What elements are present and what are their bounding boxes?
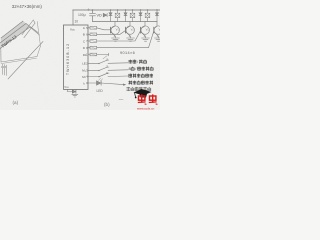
node dot bbox=[140, 9, 141, 10]
IC U1 body bbox=[64, 25, 89, 89]
svg-text:D: D bbox=[83, 46, 85, 50]
wire pin B bbox=[88, 33, 90, 35]
ground below IC bbox=[72, 94, 78, 97]
svg-text:100μ: 100μ bbox=[78, 13, 86, 17]
wire pin DL bbox=[88, 54, 90, 56]
LED D1 bbox=[97, 78, 103, 85]
module top depth edge bbox=[26, 24, 38, 33]
wire pin C bbox=[88, 40, 90, 42]
svg-text:10: 10 bbox=[75, 20, 79, 24]
transistor V3 bbox=[141, 22, 150, 39]
diode VD2 bbox=[124, 10, 127, 22]
transistor V2 bbox=[126, 22, 135, 39]
svg-text:8: 8 bbox=[129, 67, 131, 71]
wire DL right bbox=[97, 54, 109, 56]
ground V1 bbox=[112, 38, 120, 41]
wire pin A bbox=[88, 27, 90, 29]
ground V3 bbox=[142, 38, 150, 41]
node dot bbox=[147, 9, 148, 10]
svg-text:32×47×36(mm): 32×47×36(mm) bbox=[12, 4, 43, 9]
wire rail to IC pin 10 bbox=[72, 10, 74, 25]
svg-text:TWH630B-12: TWH630B-12 bbox=[66, 43, 70, 75]
svg-text:C: C bbox=[83, 39, 85, 43]
svg-text:LED: LED bbox=[97, 89, 104, 93]
svg-text:B: B bbox=[83, 33, 85, 37]
relay coil K2 bbox=[130, 10, 135, 22]
module right end edge bbox=[37, 22, 40, 47]
antenna rod right edge bbox=[24, 23, 35, 38]
wire to V3 base bbox=[97, 31, 141, 41]
annotation text line 4 LED indicator bbox=[129, 81, 153, 85]
annotation text line 1 memory/delete bbox=[129, 60, 147, 64]
power rail bbox=[73, 9, 160, 11]
svg-text:A: A bbox=[83, 26, 85, 30]
module bottom edge bbox=[1, 57, 37, 63]
module box label band bottom edge bbox=[0, 27, 30, 49]
ground V2 bbox=[127, 38, 135, 41]
pin 3 bbox=[6, 65, 8, 76]
watermark char chong 2 bbox=[149, 94, 158, 104]
svg-text:V4: V4 bbox=[159, 27, 160, 31]
node dot bbox=[132, 9, 133, 10]
node dot bbox=[125, 9, 126, 10]
antenna rod left edge bbox=[22, 20, 33, 35]
annotation text line 2 8-key output bbox=[129, 67, 154, 71]
module bottom edge shadow bbox=[1, 58, 37, 63]
module box label band top edge bbox=[1, 21, 23, 38]
svg-text:1 2 3: 1 2 3 bbox=[1, 67, 7, 69]
module left edge bbox=[0, 48, 2, 63]
node dot bbox=[117, 9, 118, 10]
antenna wire long diagonal bbox=[8, 42, 43, 80]
svg-text:(a): (a) bbox=[13, 100, 19, 105]
svg-text:(b): (b) bbox=[104, 102, 110, 107]
svg-text:VD: VD bbox=[97, 14, 103, 18]
diode VD4 bbox=[156, 10, 159, 22]
resistor R C bbox=[90, 40, 97, 43]
resistor R A bbox=[90, 27, 97, 30]
diode VD3 bbox=[139, 10, 142, 22]
module box top face shading bbox=[0, 21, 30, 49]
node dot bbox=[110, 9, 111, 10]
node line common bbox=[93, 21, 158, 23]
pin 2 bbox=[4, 65, 6, 75]
transistor V1 bbox=[111, 22, 120, 39]
switch S3 wire right bbox=[108, 75, 128, 78]
switch S1 wire right bbox=[108, 62, 128, 65]
module bottom right edge bbox=[37, 46, 41, 57]
switch S1 bbox=[99, 60, 108, 64]
wire to V4 base bbox=[97, 31, 154, 48]
resistor R D bbox=[90, 46, 97, 49]
pin 1 bbox=[2, 64, 4, 74]
relay coil K3 bbox=[145, 10, 150, 22]
module front depth edge bbox=[30, 27, 40, 35]
capacitor C1 bbox=[90, 10, 96, 22]
diode VD1 bbox=[109, 10, 112, 22]
svg-text:www.ccdz.cn: www.ccdz.cn bbox=[137, 106, 155, 110]
module box label band middle edge bbox=[0, 24, 26, 44]
capacitor C1 plus bbox=[87, 9, 89, 11]
wire to V2 base bbox=[97, 31, 126, 35]
node dot bbox=[156, 9, 157, 10]
dash mark bbox=[119, 99, 123, 101]
switch S2 wire right bbox=[108, 69, 128, 72]
antenna rod tip bbox=[33, 20, 35, 23]
watermark graduation cap bbox=[134, 89, 152, 98]
watermark char chong 1 bbox=[138, 94, 147, 104]
wire pin D bbox=[88, 47, 90, 49]
IC bottom diode bbox=[68, 89, 73, 91]
relay coil K1 bbox=[115, 10, 120, 22]
wire to V1 base bbox=[97, 28, 111, 30]
switch S3 bbox=[99, 73, 108, 77]
switch S2 bbox=[99, 67, 108, 71]
annotation text line 5 bbox=[127, 87, 151, 91]
resistor R B bbox=[90, 33, 97, 36]
ground V4 bbox=[155, 38, 163, 41]
LED wire arrow bbox=[101, 83, 123, 85]
annotation text line 3 latch bbox=[129, 74, 153, 78]
resistor R DL bbox=[90, 53, 97, 56]
transistor V4 bbox=[154, 22, 163, 39]
svg-text:9014×6: 9014×6 bbox=[120, 51, 135, 55]
